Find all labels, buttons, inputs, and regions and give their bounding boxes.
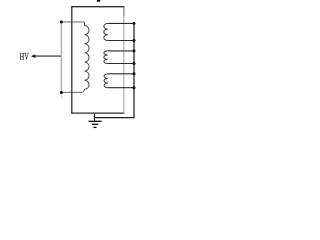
junction dot bottom-left [60, 91, 63, 94]
primary winding L1 [85, 22, 90, 89]
secondary winding section S1 [104, 23, 134, 40]
wire: tap 4 (bottom of S2) [108, 63, 134, 65]
wire: primary bottom lead [61, 89, 84, 92]
wire: tap 1 (top of S1) [108, 22, 134, 24]
junction dot tap2 [133, 39, 136, 42]
secondary winding section S2 [104, 51, 134, 64]
wire: tap 6 (bottom of S3) [108, 87, 134, 89]
wire: tap 3 (top of S2) [108, 50, 134, 52]
wire: faint stub below bottom junction [60, 93, 62, 99]
wire: HV lead [35, 55, 62, 57]
junction dot top-left [60, 21, 63, 24]
secondary winding section S3 [104, 74, 134, 88]
junction dot tap6 [133, 86, 136, 89]
wire: left vertical bus [60, 22, 62, 93]
wire: primary top lead [61, 21, 84, 23]
junction dot tap4 [133, 62, 136, 65]
transformer box right edge [123, 16, 125, 113]
svg-text:HV: HV [20, 51, 29, 62]
arrowhead to HV [31, 54, 36, 58]
S1 coil bumps [104, 23, 108, 40]
junction dot tap3 [133, 49, 136, 52]
S3 coil bumps [104, 74, 108, 88]
S2 coil bumps [104, 51, 108, 64]
transformer box right edge (upper dark part) [123, 7, 125, 17]
clipped label tick at top [97, 0, 100, 2]
wire: right vertical bus to ground [95, 23, 135, 117]
junction dot tap1 [133, 22, 136, 25]
transformer box bottom edge [71, 112, 124, 114]
wire: tap 5 (top of S3) [108, 73, 134, 75]
ground [88, 121, 101, 127]
junction dot tap5 [133, 72, 136, 75]
wire: ground stub [94, 113, 96, 121]
wire: tap 2 (bottom of S1) [108, 40, 134, 42]
transformer box (core outline) top edge [71, 6, 124, 8]
transformer box left edge [71, 6, 73, 113]
